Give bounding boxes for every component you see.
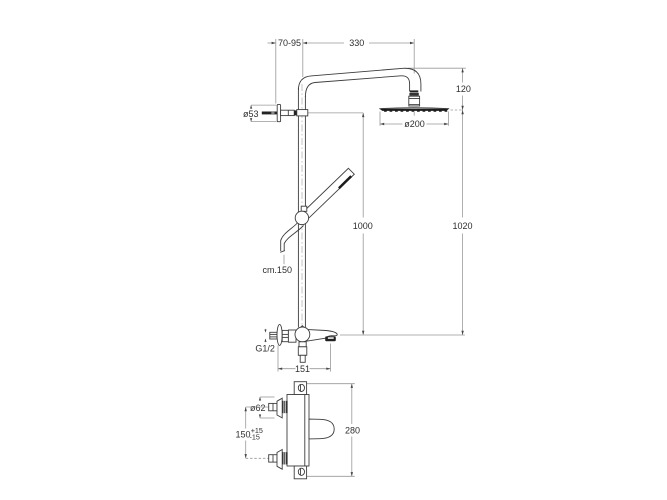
hand shower face stripe xyxy=(339,176,351,188)
shower head plate outline xyxy=(379,107,449,110)
mixer body xyxy=(288,330,296,342)
dimension diameter 53 arrows xyxy=(250,105,252,108)
bottom union flange xyxy=(277,450,282,470)
top union ribbed nut xyxy=(282,401,287,413)
mixer spout xyxy=(303,329,337,341)
svg-text:G1/2: G1/2 xyxy=(255,344,275,354)
bottom union pipe xyxy=(269,455,277,462)
dimension 1000 top tick at wall elbow level xyxy=(308,112,363,114)
dimension 70-95 extension line left xyxy=(275,39,277,104)
hand shower hose inner curve xyxy=(284,226,303,251)
dimension 150 bottom tick dashed xyxy=(246,457,269,459)
head ball joint rings xyxy=(410,90,418,92)
riser pipe xyxy=(297,88,299,327)
diverter piece 3 xyxy=(300,355,305,362)
dimension 330 line with arrows xyxy=(303,42,344,44)
svg-text:70-95: 70-95 xyxy=(278,38,301,48)
svg-text:1000: 1000 xyxy=(353,221,373,231)
svg-text:1020: 1020 xyxy=(452,221,472,231)
svg-text:-15: -15 xyxy=(250,432,260,441)
svg-text:ø200: ø200 xyxy=(404,119,425,129)
dimension 1000 line xyxy=(362,113,364,218)
svg-text:150: 150 xyxy=(235,430,250,440)
G1/2 thread dimension arrows xyxy=(265,329,267,332)
shower head nozzles xyxy=(384,110,447,111)
union nut xyxy=(281,110,295,115)
mixer knob xyxy=(295,327,310,342)
bottom cap oval xyxy=(298,468,304,475)
dimension diameter 200 extension lines xyxy=(379,112,381,126)
spout outlet (dark) xyxy=(325,336,336,341)
shower arm outer edge xyxy=(298,68,421,91)
svg-text:cm.150: cm.150 xyxy=(262,265,292,275)
head centre tick xyxy=(413,112,415,116)
thermostat body xyxy=(287,395,309,467)
wall flange (upper) xyxy=(277,104,280,121)
dimension 151 line xyxy=(278,368,296,370)
top union pipe xyxy=(269,403,277,410)
mixer nut xyxy=(282,330,288,341)
thermostat top cap xyxy=(294,382,306,395)
dimension 120 top tick at arm level xyxy=(408,67,466,69)
dimension 150 line xyxy=(245,407,247,429)
diverter piece 2 xyxy=(298,347,307,356)
diverter piece 1 xyxy=(299,342,306,347)
slider holder xyxy=(295,211,308,224)
top union flange xyxy=(277,398,282,418)
dimension diameter 200 line xyxy=(380,123,403,125)
dimension 280 ticks xyxy=(307,383,355,385)
hose length leader line xyxy=(283,255,285,264)
head connector cylinder xyxy=(409,96,420,106)
svg-text:280: 280 xyxy=(345,426,360,436)
dimension 330 extension line right (head connector centre) xyxy=(413,39,415,74)
svg-text:ø62: ø62 xyxy=(250,403,266,413)
dimension 120 line xyxy=(462,68,464,82)
mixer knob cap point xyxy=(298,326,308,331)
shower arm inner edge xyxy=(305,76,409,97)
dimension 70-95 extension line right (riser centre) xyxy=(302,39,304,77)
union dark ring xyxy=(294,110,297,115)
riser centre line xyxy=(301,84,303,326)
dimension 70-95 left arrow xyxy=(268,42,276,44)
top cap oval xyxy=(298,384,304,391)
mixer wall pipe (G1/2) xyxy=(270,332,277,339)
shower head plate dark band xyxy=(380,109,449,111)
mixer wall flange xyxy=(277,324,282,345)
hand shower handle xyxy=(303,168,355,218)
hose end cap xyxy=(280,251,285,253)
dimension 1020 line xyxy=(462,110,464,218)
slider knob xyxy=(301,206,307,211)
riser clamp xyxy=(297,110,308,116)
dimension 280 line xyxy=(351,384,353,424)
svg-text:330: 330 xyxy=(349,38,364,48)
bottom union ribbed nut xyxy=(282,452,287,464)
thermostat handle xyxy=(309,419,334,439)
dimension diameter 62 arrows xyxy=(259,397,261,401)
hand shower hose outer curve xyxy=(281,222,299,252)
dimension diameter 53 bottom tick xyxy=(251,121,276,123)
dimension 151 extension lines xyxy=(277,345,279,371)
thermostat bottom cap xyxy=(294,466,306,479)
dimension diameter 62 ticks xyxy=(260,396,275,398)
bottom extension line from spout to 1020 xyxy=(340,334,465,336)
wall supply pipe (dark) xyxy=(262,112,277,115)
dimension 150 top tick xyxy=(246,406,269,408)
dimension diameter 53 top tick xyxy=(251,104,276,106)
svg-text:ø53: ø53 xyxy=(243,109,259,119)
head level dashed tick xyxy=(451,109,463,111)
svg-text:120: 120 xyxy=(456,84,471,94)
svg-text:151: 151 xyxy=(295,364,310,374)
